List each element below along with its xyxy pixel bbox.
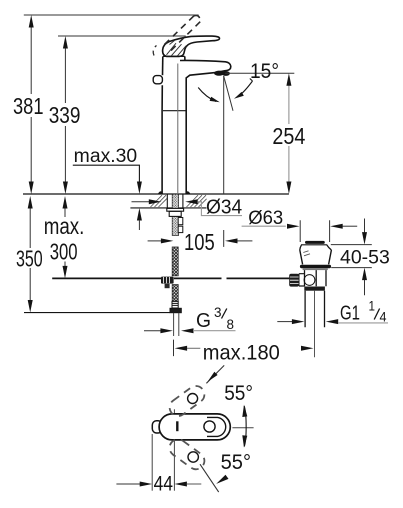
dimension 44 (spout offset) [116,473,201,496]
svg-text:8: 8 [227,316,235,332]
angle 55 degrees: swing arc right of lever [242,405,247,448]
angle 55 degrees upper: boundary ray and arrow [206,365,253,405]
pop-up plug top (dark ring) [305,241,325,244]
svg-text:40-53: 40-53 [340,248,390,269]
svg-text:4: 4 [380,310,387,325]
thread label G 3/8 (supply hose) [144,304,236,333]
dimension max.300 (rod length) [44,196,85,278]
svg-text:max.180: max.180 [203,340,280,364]
side outlet tabs on shank [178,218,183,225]
svg-text:44: 44 [154,473,174,496]
tailpipe nut band [304,287,325,291]
top view: faucet body and lever (plan view pill) [159,414,230,440]
svg-text:G: G [196,309,211,332]
svg-text:3: 3 [214,304,222,320]
countertop deck line (top) [23,193,289,195]
angle 15 degrees (spray angle) [198,60,279,194]
faucet lever handle (solid, lowered position) [163,36,220,56]
horizontal pop-up rod [52,277,289,279]
dimension max.350 (hose length) [16,196,43,313]
svg-text:15°: 15° [250,60,279,83]
svg-text:55°: 55° [224,382,253,405]
top view: spout nub [152,421,162,433]
pop-up rod connector at faucet [161,277,174,289]
waste pull-rod knob at back of body [153,76,162,84]
flange top line [301,244,327,246]
svg-text:350: 350 [16,246,43,272]
dimension diameter 63 (drain flange) [242,207,358,229]
top view: lever lowered position (dashed, rotated down 55deg) [166,436,208,473]
shank mounting nut [169,211,181,216]
aerator at spout outlet [214,71,224,76]
hose end fitting [170,301,182,312]
top view: lever raised position (dashed, rotated up 55deg) [166,383,208,420]
drain assembly [289,220,331,357]
drain body below basin [305,270,327,286]
svg-text:Ø34: Ø34 [206,196,242,219]
faucet body and spout [153,56,231,193]
svg-text:max.30: max.30 [74,146,138,167]
thread label G 1 1/4 (drain tailpipe) [277,299,388,325]
svg-text:339: 339 [49,102,81,128]
deck cross-section hatching [151,195,207,207]
flexible supply hose (upper braided section) [172,247,178,276]
dimension diameter 34 (faucet base) [132,196,243,219]
svg-text:300: 300 [50,239,78,265]
base fillets at deck [159,192,162,194]
svg-text:55°: 55° [221,451,251,474]
shank washer below deck [167,208,184,211]
hose connector tails below nut [174,313,179,336]
top view: faucet centerline vertical [173,409,175,490]
faucet threaded shank through deck [167,194,184,235]
flared neck [300,245,332,250]
hose end reference line (max.350) [24,312,170,314]
tailpipe [305,291,324,328]
dimension 339 (height to spout) [49,36,186,194]
angle 55 degrees lower: boundary ray and arrow [200,451,251,492]
svg-text:G1: G1 [340,302,360,325]
svg-text:105: 105 [184,229,215,255]
knurled adjustment knob on drain [289,274,299,287]
top view: horizontal centerline [232,427,253,429]
svg-text:1: 1 [369,299,376,314]
countertop deck line (bottom) [130,207,206,209]
drain flange (black band) [300,265,331,269]
svg-text:max.: max. [44,213,85,239]
svg-text:Ø63: Ø63 [248,207,283,229]
dimension 381 (total height) [13,15,199,194]
dimension 254 (spout height above deck) [225,73,305,194]
svg-text:254: 254 [272,123,305,149]
dimension 105 (distance below deck) [148,229,253,255]
dimension 40-53 (basin thickness range at drain) [331,219,390,296]
flexible supply hose (lower braided section) [172,285,178,302]
extension lines above drain plug [300,220,329,242]
dimension max.30 (deck thickness) [73,146,142,230]
top view: spout axis extension line [151,434,153,491]
dimension max.180 (faucet to drain distance) [174,340,314,365]
faucet lever handle (dashed, raised position) [153,15,200,55]
svg-text:381: 381 [13,93,44,119]
